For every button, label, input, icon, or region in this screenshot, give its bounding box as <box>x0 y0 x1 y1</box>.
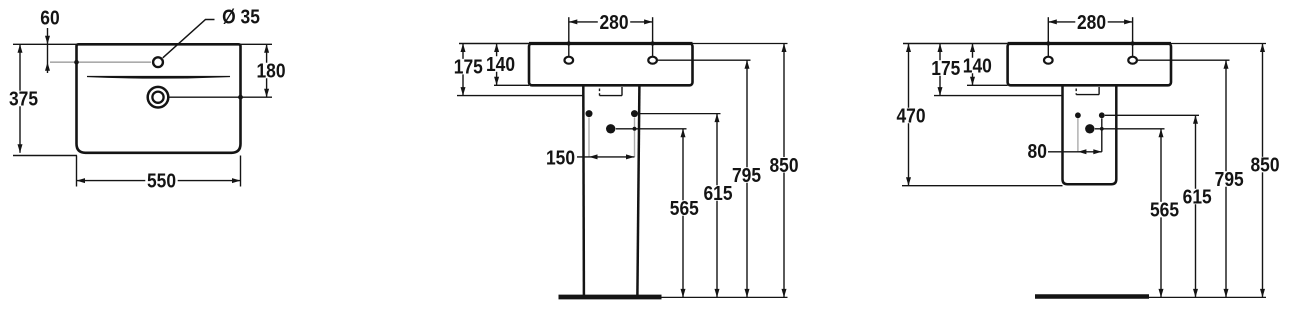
left tap hole (pedestal version) <box>565 57 574 64</box>
dimension 280 line (pedestal version) <box>569 21 653 23</box>
dimension 280 arrow right (semi-pedestal version) <box>1124 19 1133 24</box>
siphon recess left (dashed, right drawing) <box>1075 89 1077 95</box>
left fixing drop line (grey) <box>1077 119 1079 152</box>
svg-text:850: 850 <box>769 155 798 178</box>
semi-pedestal bottom extension line <box>902 185 1063 187</box>
svg-text:175: 175 <box>454 56 483 79</box>
svg-text:140: 140 <box>963 55 992 78</box>
floor line <box>662 296 788 298</box>
extension line bottom-left corner <box>76 156 78 187</box>
dimension 565 line <box>682 129 684 298</box>
recess level extension line (right drawing) <box>934 95 1063 97</box>
dimension 850 arrow bottom (right drawing) <box>1260 289 1265 298</box>
dimension 175 text <box>452 59 484 75</box>
leader line to tap hole <box>163 20 215 58</box>
junction dot drain line / bolt drop <box>633 127 637 131</box>
bolt level extension line <box>639 113 721 115</box>
basin front outline (semi-pedestal version) <box>1008 44 1171 86</box>
dimension 175 line (right drawing) <box>939 44 941 96</box>
dimension 850 text (right drawing) <box>1249 157 1281 173</box>
dimension 60 arrow up <box>45 62 50 70</box>
dimension 175 arrow top <box>461 44 466 53</box>
dimension 140 line (right drawing) <box>972 44 974 86</box>
tap hole level extension line <box>657 59 750 61</box>
svg-text:565: 565 <box>670 198 699 221</box>
junction dot right hole extension (semi-pedestal version) <box>1130 41 1134 45</box>
dimension 550 text <box>145 173 177 189</box>
svg-text:615: 615 <box>1183 186 1212 209</box>
drain level extension line (right drawing) <box>1095 128 1165 130</box>
dimension 150 arrow right <box>626 154 635 159</box>
dimension 850 line (right drawing) <box>1262 44 1264 298</box>
floor base plate <box>559 295 662 300</box>
basin top extension line right <box>693 43 788 45</box>
dimension 795 text (right drawing) <box>1213 171 1245 187</box>
junction dot left hole extension (semi-pedestal version) <box>1046 41 1050 45</box>
dimension 850 arrow top (right drawing) <box>1260 44 1265 53</box>
svg-text:375: 375 <box>9 88 38 111</box>
dimension 140 arrow top (right drawing) <box>970 44 975 53</box>
dimension 60 line <box>47 28 49 73</box>
dimension 550 line <box>77 180 241 182</box>
dimension 565 text <box>668 200 700 216</box>
dimension 550 arrow right <box>232 178 241 183</box>
dimension 280 extension right (pedestal version) <box>652 17 654 56</box>
dimension 140 text <box>484 56 516 72</box>
svg-text:795: 795 <box>732 165 761 188</box>
pedestal recess level extension line <box>457 95 583 97</box>
dimension 565 arrow top <box>681 129 686 138</box>
dimension 375 arrow top <box>18 44 23 53</box>
drain level extension line <box>616 128 687 130</box>
dimension 795 arrow bottom (right drawing) <box>1224 289 1229 298</box>
drain outer ring <box>148 87 169 108</box>
dimension 615 line (right drawing) <box>1195 115 1197 297</box>
dimension 180 text <box>255 63 287 79</box>
junction dot on basin right edge <box>238 95 243 100</box>
dimension 565 arrow top (right drawing) <box>1159 129 1164 138</box>
dimension 550 arrow left <box>77 178 86 183</box>
junction dot left hole extension (pedestal version) <box>567 41 571 45</box>
dimension 615 line <box>716 114 718 298</box>
extension line basin top right <box>241 43 273 45</box>
dimension 280 extension right (semi-pedestal version) <box>1132 17 1134 56</box>
dimension 795 arrow top <box>745 60 750 68</box>
dimension 615 arrow bottom <box>715 289 720 298</box>
dimension 60 arrow down <box>45 36 50 45</box>
svg-text:565: 565 <box>1150 199 1179 222</box>
siphon recess bottom (right drawing) <box>1076 94 1099 96</box>
basin top extension line right (right drawing) <box>1171 43 1266 45</box>
dimension 565 line (right drawing) <box>1160 129 1162 298</box>
dimension 140 text (right drawing) <box>961 58 993 74</box>
dimension 175 arrow bottom (right drawing) <box>938 87 943 96</box>
dimension 140 arrow bottom (right drawing) <box>970 77 975 86</box>
svg-text:Ø 35: Ø 35 <box>222 6 260 29</box>
dimension 80 arrow right <box>1093 149 1102 154</box>
svg-text:150: 150 <box>546 147 575 170</box>
tap hole level extension line (right drawing) <box>1137 59 1230 61</box>
basin top-view outline <box>77 44 241 153</box>
right fixing dot <box>1099 112 1105 118</box>
dimension 470 line <box>908 44 910 186</box>
dimension 175 arrow top (right drawing) <box>938 44 943 53</box>
svg-text:80: 80 <box>1028 141 1047 164</box>
right fixing bolt <box>631 110 638 117</box>
dimension 280 extension left (semi-pedestal version) <box>1047 17 1049 56</box>
tap hole (top view) <box>153 57 163 67</box>
dimension 375 text <box>7 91 39 107</box>
right fixing drop line <box>1101 119 1103 152</box>
left fixing dot <box>1075 112 1081 118</box>
dimension 280 text (pedestal version) <box>598 14 630 30</box>
siphon recess right <box>621 87 623 96</box>
svg-text:60: 60 <box>40 7 59 30</box>
right tap hole (semi-pedestal version) <box>1128 57 1137 64</box>
svg-text:140: 140 <box>486 54 515 77</box>
dimension 795 line <box>746 60 748 297</box>
dimension 615 arrow top <box>715 114 720 123</box>
dimension 795 line (right drawing) <box>1225 60 1227 297</box>
dimension 470 arrow bottom <box>906 177 911 186</box>
right tap hole (pedestal version) <box>648 57 657 64</box>
floor base plate (right drawing) <box>1035 294 1149 299</box>
basin top edge thick (semi-pedestal version) <box>1008 42 1171 45</box>
basin top edge thick (pedestal version) <box>529 42 693 45</box>
junction dot right hole extension (pedestal version) <box>650 41 654 45</box>
dimension 850 line <box>783 44 785 298</box>
basin top extension line left <box>459 43 529 45</box>
svg-text:795: 795 <box>1215 169 1244 192</box>
dimension 175 line <box>462 44 464 96</box>
dimension 615 arrow top (right drawing) <box>1193 115 1198 124</box>
tap-hole centre extension line (grey) <box>50 61 151 63</box>
drain inner ring <box>152 92 163 103</box>
left fixing bolt <box>586 110 593 117</box>
dimension 850 arrow top <box>782 44 787 53</box>
svg-text:850: 850 <box>1250 154 1279 177</box>
dimension 180 line <box>266 44 268 97</box>
dimension 180 arrow bottom <box>264 89 269 98</box>
svg-text:180: 180 <box>256 60 285 83</box>
dimension 140 line <box>496 44 498 86</box>
svg-text:280: 280 <box>1077 12 1106 35</box>
dimension 375 line <box>19 44 21 153</box>
basin top extension line left (right drawing) <box>903 43 1008 45</box>
left bolt drop line (grey) <box>588 118 590 157</box>
dimension 280 text (semi-pedestal version) <box>1075 14 1107 30</box>
dimension 280 arrow left (semi-pedestal version) <box>1048 19 1057 24</box>
semi-pedestal outline <box>1063 85 1117 184</box>
dimension 795 text <box>730 167 762 183</box>
dimension 470 arrow top <box>906 44 911 53</box>
waste outlet dot (right drawing) <box>1085 124 1094 133</box>
pedestal left edge <box>582 85 585 295</box>
left tap hole (semi-pedestal version) <box>1044 57 1053 64</box>
siphon recess left (dashed) <box>599 89 601 96</box>
right bolt drop line (grey) <box>634 118 636 157</box>
dimension 175 text (right drawing) <box>930 60 962 76</box>
dimension 150 line <box>577 156 635 158</box>
extension line bottom-right corner <box>240 156 242 187</box>
basin front outline (pedestal version) <box>529 44 693 86</box>
dimension 850 arrow bottom <box>782 289 787 298</box>
junction dot on basin left edge <box>74 60 79 65</box>
dimension 80 line <box>1048 151 1102 153</box>
dimension 150 arrow left <box>589 154 598 159</box>
dimension 850 text <box>768 157 800 173</box>
dimension 180 arrow top <box>264 44 269 53</box>
dimension 470 text <box>895 108 927 124</box>
svg-text:615: 615 <box>703 183 732 206</box>
svg-text:175: 175 <box>931 58 960 81</box>
top extension line left <box>13 43 77 45</box>
dimension 280 extension left (pedestal version) <box>568 17 570 56</box>
pedestal right edge <box>637 85 639 295</box>
dimension 615 text <box>702 185 734 201</box>
dimension 280 arrow right (pedestal version) <box>644 19 653 24</box>
dimension 795 arrow top (right drawing) <box>1224 60 1229 68</box>
junction dot drain line / fixing drop <box>1100 127 1104 131</box>
dimension 565 arrow bottom (right drawing) <box>1159 289 1164 298</box>
dimension 280 arrow left (pedestal version) <box>569 19 578 24</box>
siphon recess bottom <box>600 95 623 97</box>
floor line (right drawing) <box>1149 296 1266 298</box>
fixing level extension line (right drawing) <box>1105 114 1199 116</box>
dimension 280 line (semi-pedestal version) <box>1048 21 1132 23</box>
svg-text:280: 280 <box>599 12 628 35</box>
dimension 565 arrow bottom <box>681 289 686 298</box>
svg-text:550: 550 <box>147 170 176 193</box>
basin bottom extension line left (right drawing) <box>967 84 1008 86</box>
dimension 375 arrow bottom <box>18 144 23 153</box>
dimension 175 arrow bottom <box>461 87 466 96</box>
dimension 795 arrow bottom <box>745 289 750 298</box>
overflow slot <box>87 77 230 79</box>
dimension 80 arrow left <box>1078 149 1087 154</box>
svg-text:470: 470 <box>896 105 925 128</box>
drain centre extension line right <box>169 96 273 98</box>
waste outlet dot <box>606 124 615 133</box>
basin bottom extension line left <box>494 84 529 86</box>
dimension 140 arrow bottom <box>494 77 499 86</box>
dimension 615 arrow bottom (right drawing) <box>1193 289 1198 298</box>
dimension 565 text (right drawing) <box>1148 202 1180 218</box>
dimension 140 arrow top <box>494 44 499 53</box>
bottom extension line left <box>13 155 77 157</box>
dimension 615 text (right drawing) <box>1181 189 1213 205</box>
siphon recess right (right drawing) <box>1098 87 1100 95</box>
